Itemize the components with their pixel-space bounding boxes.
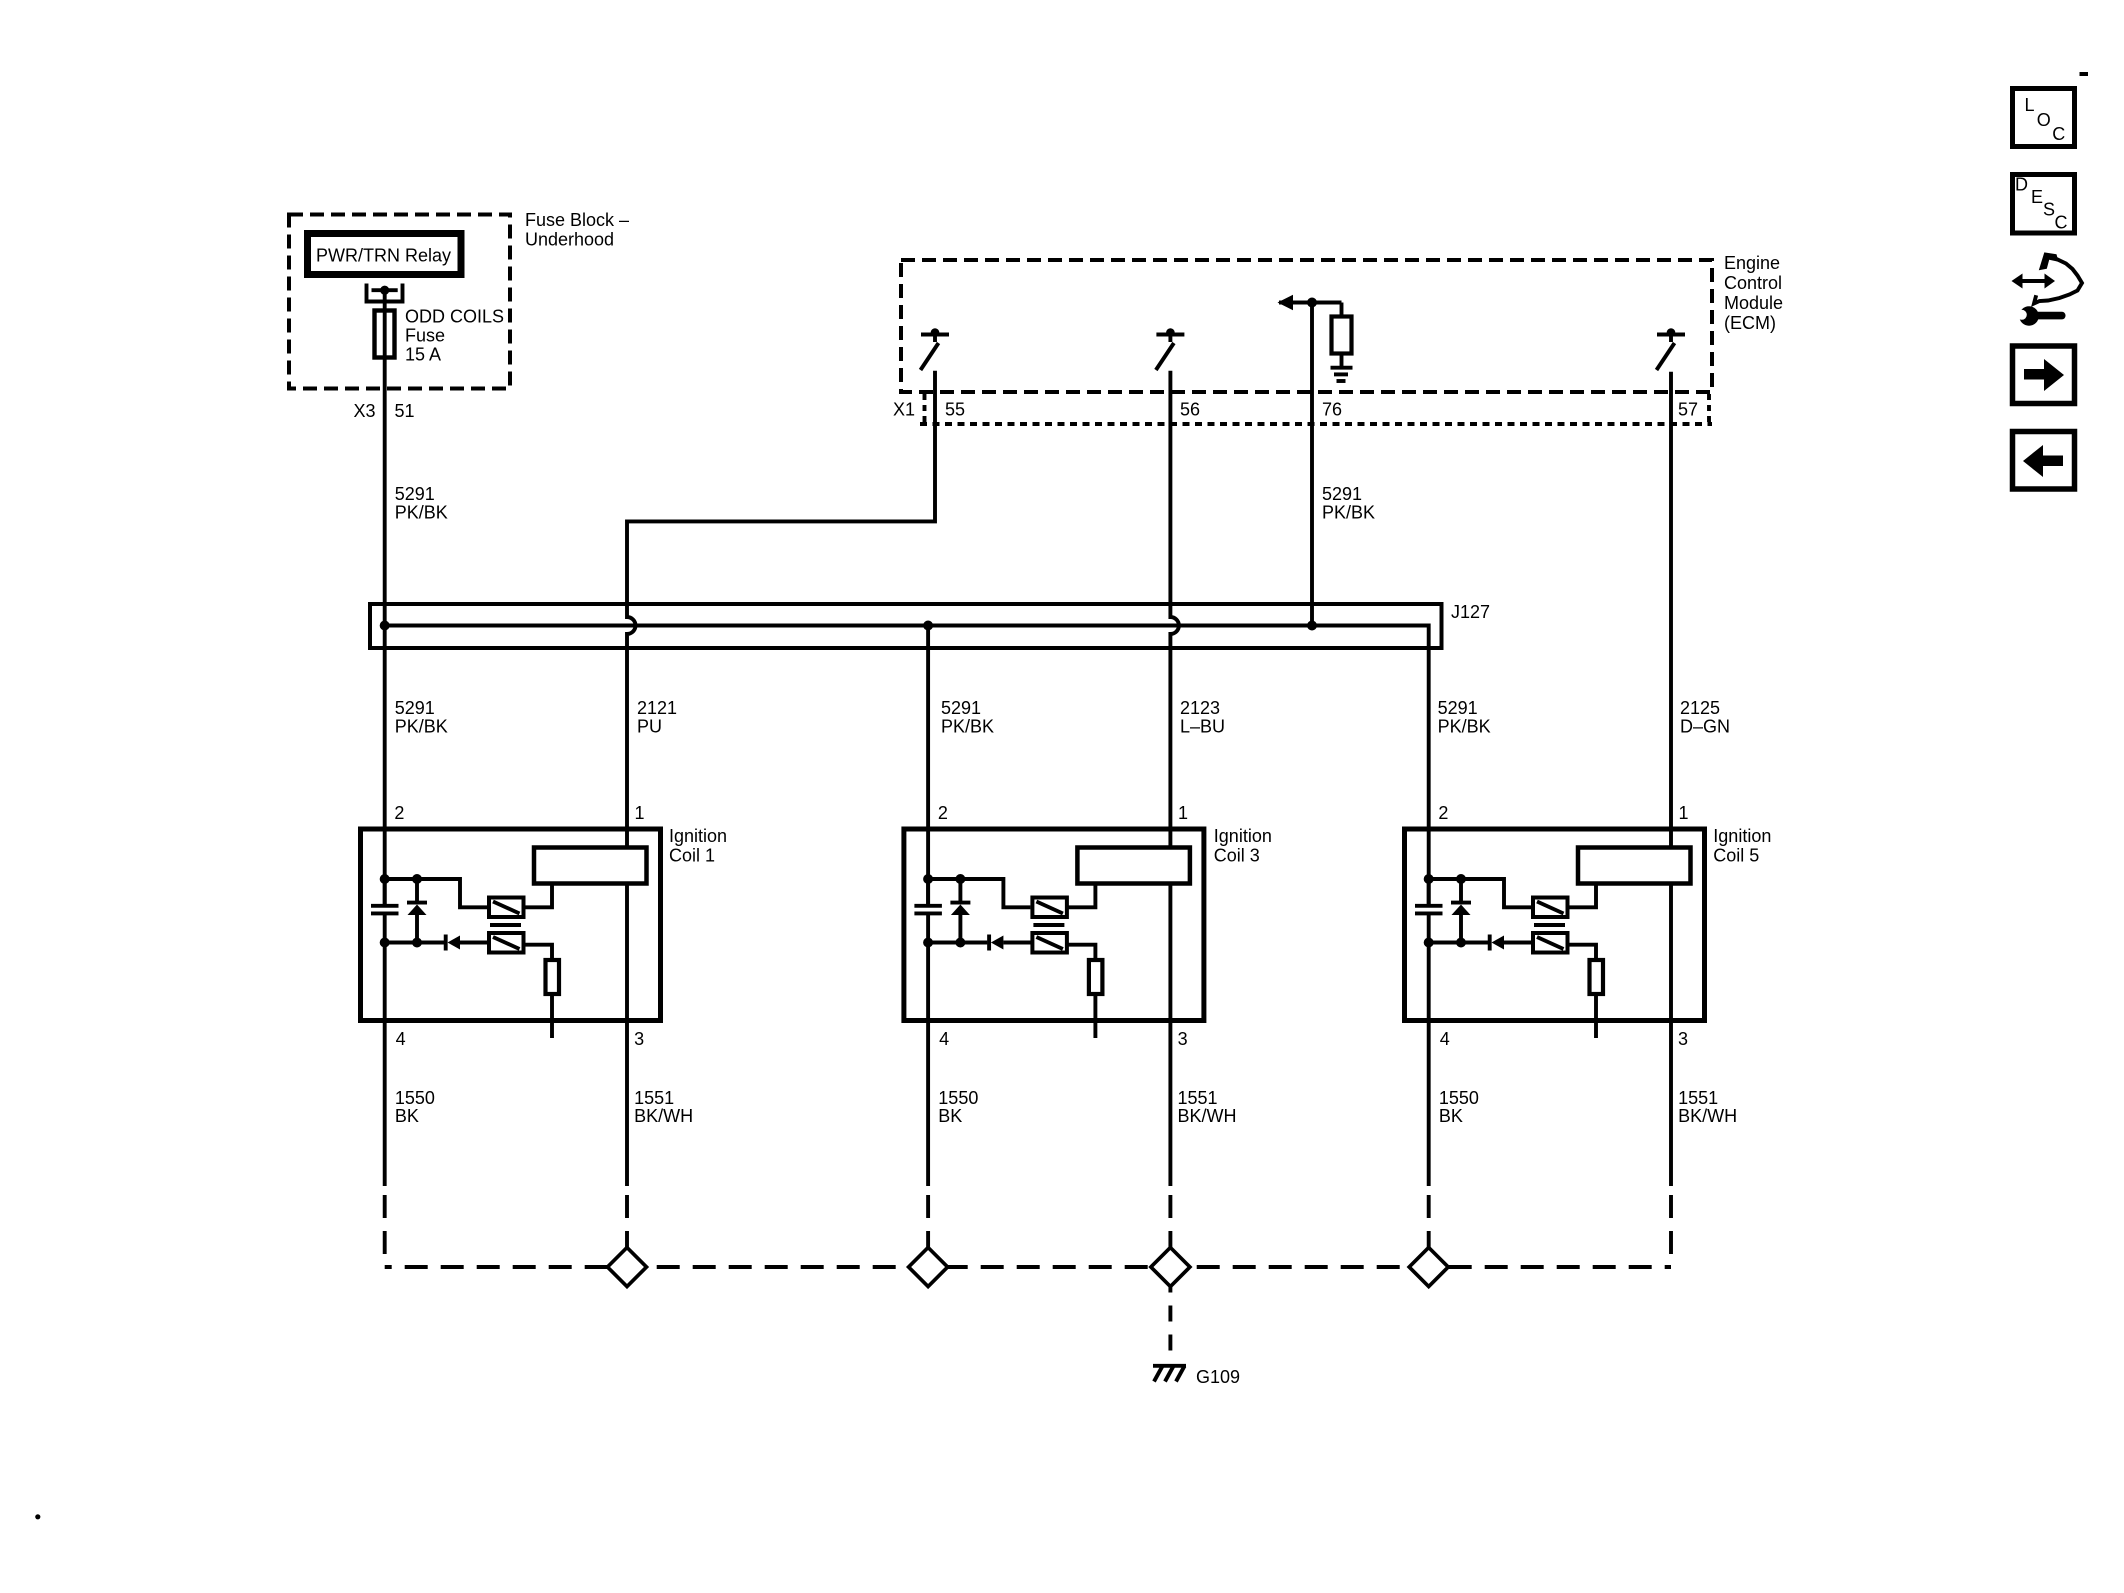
svg-text:D: D (2015, 175, 2028, 195)
svg-text:55: 55 (945, 400, 965, 420)
svg-text:S: S (2043, 200, 2055, 220)
fuse ODD COILS 15 A (375, 311, 395, 358)
wire: ECM pin 56 2123 L-BU to coil 3 pin 1 (hops J127) (1170, 371, 1179, 846)
node: pin 76 junction (1307, 298, 1317, 308)
svg-text:PK/BK: PK/BK (1438, 717, 1491, 737)
svg-text:Ignition: Ignition (669, 826, 727, 846)
ECM driver for pin 55 (921, 328, 950, 370)
svg-text:PK/BK: PK/BK (395, 717, 448, 737)
svg-text:BK: BK (938, 1106, 962, 1126)
fuse block underhood dashed box (289, 215, 510, 389)
splice diamond at coil 3 pin 3 (1151, 1248, 1190, 1287)
svg-text:Coil 3: Coil 3 (1214, 846, 1260, 866)
wire: ECM pin 57 2125 D-GN to coil 5 pin 1 (1669, 372, 1673, 846)
dashed ground bus wire (385, 1265, 1671, 1269)
svg-text:5291: 5291 (395, 484, 435, 504)
icon connector service: wrench (2019, 306, 2039, 326)
svg-text:5291: 5291 (395, 698, 435, 718)
ECM connector row separators (923, 394, 927, 424)
svg-text:2: 2 (938, 803, 948, 823)
node: J127 tap to coil 3 pin 2 (923, 621, 933, 631)
ignition coil 1 (361, 829, 661, 1267)
ECM dashed box (901, 260, 1712, 392)
node: J127 tap to ECM pin 76 (1307, 621, 1317, 631)
node: relay output (380, 286, 389, 295)
svg-text:Fuse Block –: Fuse Block – (525, 210, 629, 230)
svg-text:4: 4 (396, 1029, 406, 1049)
svg-text:2125: 2125 (1680, 698, 1720, 718)
svg-text:1: 1 (1178, 803, 1188, 823)
svg-text:ODD COILS: ODD COILS (405, 307, 504, 327)
svg-text:L: L (2025, 95, 2035, 115)
svg-text:1550: 1550 (395, 1088, 435, 1108)
node: J127 tap to fuse feed (380, 621, 390, 631)
svg-text:PK/BK: PK/BK (941, 717, 994, 737)
relay PWR/TRN Relay box (308, 234, 462, 275)
ECM pin 76 sense: arrow (1279, 301, 1342, 305)
svg-text:1550: 1550 (938, 1088, 978, 1108)
svg-text:PK/BK: PK/BK (1322, 503, 1375, 523)
splice diamond at coil 1 pin 3 (608, 1248, 647, 1287)
svg-text:3: 3 (1678, 1029, 1688, 1049)
ground symbol G109 (1153, 1364, 1186, 1368)
svg-text:Coil 5: Coil 5 (1713, 846, 1759, 866)
svg-text:3: 3 (1178, 1029, 1188, 1049)
svg-text:PK/BK: PK/BK (395, 503, 448, 523)
ignition coil 5 (1405, 829, 1705, 1267)
svg-text:1550: 1550 (1439, 1088, 1479, 1108)
svg-text:(ECM): (ECM) (1724, 313, 1776, 333)
wire: ECM pin 76 sense lead 5291 PK/BK to J127 (1310, 303, 1314, 626)
wire: fuse output 5291 PK/BK down to J127 and coil 1 pin 2 (383, 290, 387, 904)
icon LOC box (2013, 89, 2075, 147)
svg-text:X3: X3 (354, 401, 376, 421)
svg-text:BK: BK (1439, 1106, 1463, 1126)
svg-text:X1: X1 (893, 400, 915, 420)
svg-text:5291: 5291 (1322, 484, 1362, 504)
svg-text:5291: 5291 (941, 698, 981, 718)
svg-text:G109: G109 (1196, 1367, 1240, 1387)
icon DESC box (2013, 175, 2075, 234)
icon forward arrow box (2013, 346, 2075, 404)
svg-text:Coil 1: Coil 1 (669, 846, 715, 866)
svg-text:2123: 2123 (1180, 698, 1220, 718)
icon connector service: double arrow (2020, 279, 2047, 283)
svg-text:BK/WH: BK/WH (634, 1106, 693, 1126)
svg-text:L–BU: L–BU (1180, 717, 1225, 737)
svg-text:Module: Module (1724, 293, 1783, 313)
svg-text:4: 4 (939, 1029, 949, 1049)
svg-text:1551: 1551 (1678, 1088, 1718, 1108)
svg-text:15 A: 15 A (405, 345, 441, 365)
ECM connector row dotted line (920, 422, 1712, 426)
svg-text:O: O (2037, 110, 2051, 130)
ECM internal ground (1331, 366, 1353, 370)
svg-text:56: 56 (1180, 400, 1200, 420)
svg-text:5291: 5291 (1438, 698, 1478, 718)
ECM driver for pin 57 (1657, 328, 1686, 370)
svg-text:BK: BK (395, 1106, 419, 1126)
splice pack J127 housing (370, 604, 1442, 648)
relay output clip connector (367, 284, 403, 302)
svg-text:J127: J127 (1451, 602, 1490, 622)
svg-text:D–GN: D–GN (1680, 717, 1730, 737)
icon connector service: outline arrow (2034, 259, 2082, 304)
svg-text:Ignition: Ignition (1214, 826, 1272, 846)
svg-text:2121: 2121 (637, 698, 677, 718)
svg-text:C: C (2052, 124, 2065, 144)
svg-text:1: 1 (635, 803, 645, 823)
dashed lead to ground G109 (1168, 1287, 1172, 1363)
svg-text:51: 51 (395, 401, 415, 421)
ignition coil 3 (904, 829, 1204, 1267)
svg-text:PWR/TRN Relay: PWR/TRN Relay (316, 246, 451, 266)
ECM internal resistor (1340, 303, 1344, 317)
svg-text:4: 4 (1440, 1029, 1450, 1049)
wire: J127 internal bus and drop to coil 5 pin 2 (385, 626, 1429, 905)
svg-text:Ignition: Ignition (1713, 826, 1771, 846)
svg-text:Engine: Engine (1724, 253, 1780, 273)
svg-text:PU: PU (637, 717, 662, 737)
svg-text:Control: Control (1724, 273, 1782, 293)
svg-text:BK/WH: BK/WH (1178, 1106, 1237, 1126)
wire: ECM pin 55 zigzag 2121 PU to coil 1 pin 1 (hops J127) (627, 371, 935, 846)
svg-text:Fuse: Fuse (405, 326, 445, 346)
svg-text:2: 2 (394, 803, 404, 823)
svg-text:57: 57 (1678, 400, 1698, 420)
splice diamond at coil 5 pin 4 (1409, 1248, 1448, 1287)
svg-text:76: 76 (1322, 400, 1342, 420)
page speck bottom left (35, 1514, 40, 1519)
icon back arrow box (2013, 432, 2075, 490)
svg-text:C: C (2055, 213, 2068, 233)
splice diamond at coil 3 pin 4 (909, 1248, 948, 1287)
svg-text:1: 1 (1679, 803, 1689, 823)
svg-text:BK/WH: BK/WH (1678, 1106, 1737, 1126)
wire: J127 drop to coil 3 pin 2 (926, 626, 930, 905)
ECM driver for pin 56 (1156, 328, 1185, 370)
svg-text:E: E (2031, 187, 2043, 207)
svg-text:3: 3 (634, 1029, 644, 1049)
svg-text:1551: 1551 (1178, 1088, 1218, 1108)
svg-text:2: 2 (1438, 803, 1448, 823)
page speck top right (2080, 72, 2089, 76)
svg-text:1551: 1551 (634, 1088, 674, 1108)
svg-text:Underhood: Underhood (525, 230, 614, 250)
